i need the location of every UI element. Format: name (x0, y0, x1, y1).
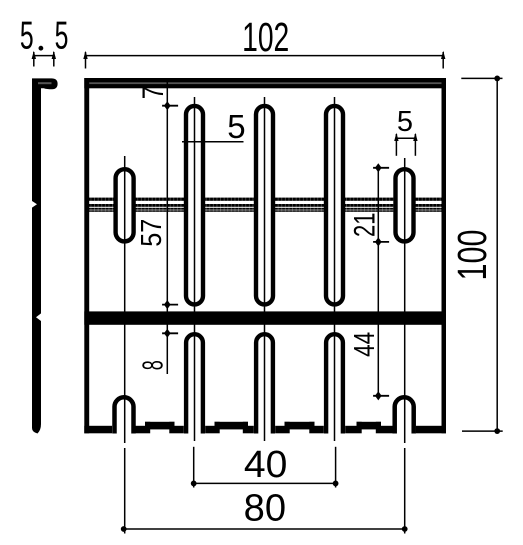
svg-text:5: 5 (55, 15, 69, 58)
svg-text:5: 5 (227, 108, 245, 145)
svg-text:44: 44 (349, 332, 381, 357)
svg-text:7: 7 (137, 86, 170, 99)
svg-text:57: 57 (136, 219, 168, 247)
svg-text:5: 5 (20, 15, 34, 58)
svg-text:5: 5 (397, 106, 413, 138)
svg-text:100: 100 (449, 230, 495, 281)
svg-text:40: 40 (244, 444, 288, 486)
svg-text:21: 21 (348, 213, 381, 238)
svg-text:80: 80 (244, 487, 286, 529)
svg-text:8: 8 (138, 360, 170, 370)
svg-text:102: 102 (242, 14, 289, 60)
